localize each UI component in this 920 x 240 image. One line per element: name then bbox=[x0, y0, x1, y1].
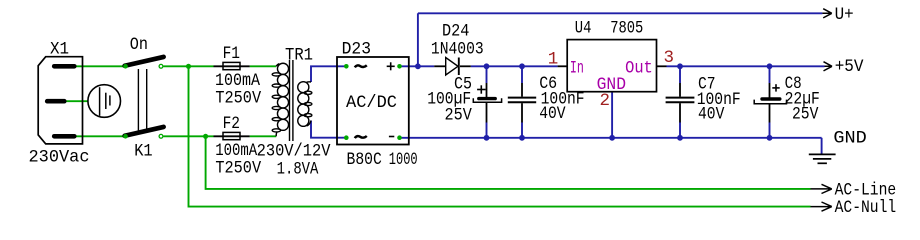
svg-text:In: In bbox=[570, 58, 584, 78]
svg-text:25V: 25V bbox=[792, 105, 819, 125]
svg-text:7805: 7805 bbox=[610, 18, 643, 38]
svg-text:AC-Null: AC-Null bbox=[835, 198, 897, 218]
svg-text:On: On bbox=[130, 35, 148, 55]
svg-text:B80C: B80C bbox=[347, 150, 382, 170]
svg-text:1.8VA: 1.8VA bbox=[277, 160, 319, 180]
svg-text:F1: F1 bbox=[223, 44, 240, 64]
svg-text:+5V: +5V bbox=[835, 57, 864, 77]
svg-text:AC/DC: AC/DC bbox=[346, 93, 397, 113]
svg-text:T250V: T250V bbox=[215, 159, 261, 179]
svg-text:40V: 40V bbox=[539, 104, 566, 124]
svg-text:3: 3 bbox=[664, 48, 675, 68]
svg-text:Out: Out bbox=[625, 58, 653, 78]
svg-text:X1: X1 bbox=[50, 40, 69, 60]
svg-text:T250V: T250V bbox=[215, 89, 261, 109]
svg-text:1: 1 bbox=[548, 49, 559, 69]
svg-text:U4: U4 bbox=[575, 18, 592, 38]
svg-text:D24: D24 bbox=[442, 22, 469, 42]
svg-text:K1: K1 bbox=[134, 141, 152, 161]
svg-text:D23: D23 bbox=[342, 40, 371, 60]
svg-text:1N4003: 1N4003 bbox=[431, 40, 484, 60]
svg-text:1000: 1000 bbox=[389, 150, 418, 170]
svg-text:GND: GND bbox=[833, 129, 866, 149]
svg-text:TR1: TR1 bbox=[285, 45, 313, 65]
svg-text:U+: U+ bbox=[835, 5, 854, 25]
svg-text:230Vac: 230Vac bbox=[29, 148, 90, 168]
svg-text:2: 2 bbox=[600, 91, 611, 111]
svg-text:F2: F2 bbox=[223, 114, 240, 134]
svg-text:40V: 40V bbox=[698, 105, 725, 125]
svg-text:25V: 25V bbox=[445, 106, 473, 126]
